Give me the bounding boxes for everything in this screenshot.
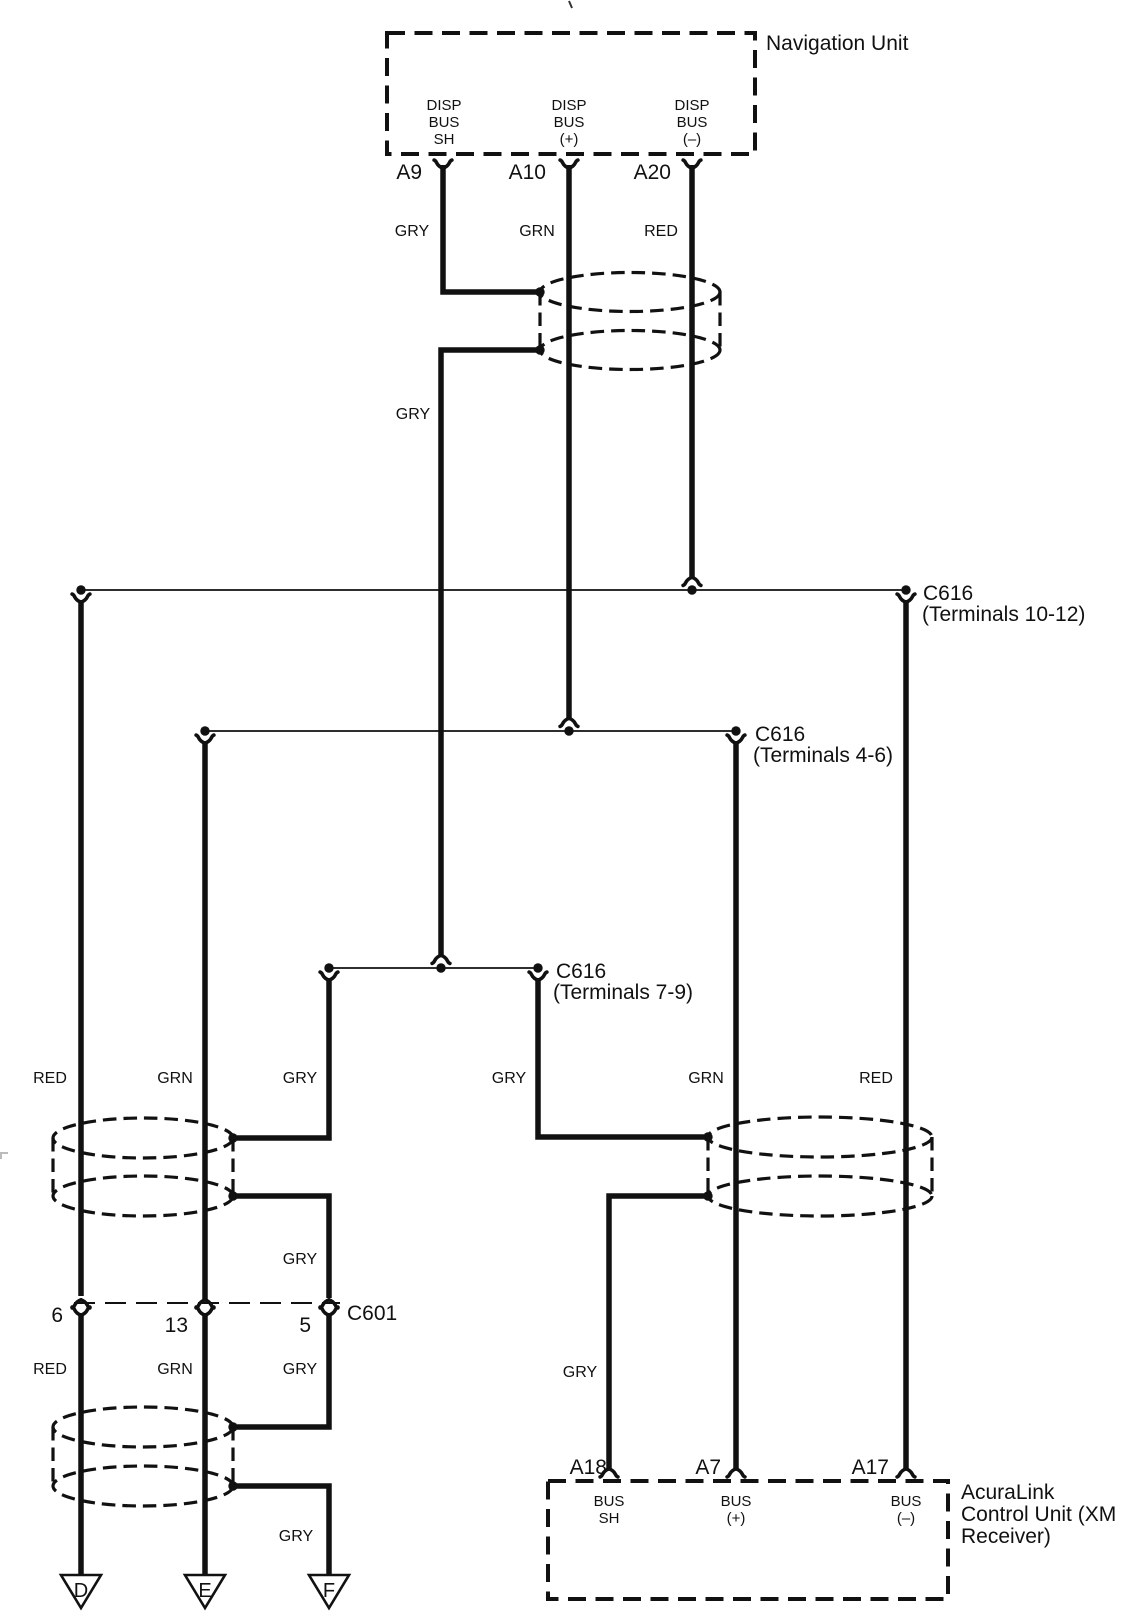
- C601 pin 5 female terminal: [320, 1307, 338, 1315]
- wire GRN right drop: [733, 741, 739, 1470]
- wire RED below C601: [78, 1313, 84, 1575]
- svg-text:Control Unit (XM: Control Unit (XM: [961, 1503, 1116, 1526]
- wire GRY below C601: [237, 1313, 329, 1427]
- C616 10-12 male terminal RED: [683, 577, 701, 585]
- wire GRN from A10: [566, 165, 572, 719]
- svg-text:RED: RED: [644, 223, 678, 240]
- shield S4 (left cable shield lower): [53, 1407, 233, 1506]
- wire RED from A20: [689, 165, 695, 579]
- C616 4-6 male terminal GRN: [560, 718, 578, 726]
- wire GRY long drop: [441, 350, 540, 957]
- svg-text:GRN: GRN: [157, 1361, 193, 1378]
- svg-text:C616: C616: [923, 582, 973, 605]
- svg-text:GRY: GRY: [492, 1070, 527, 1087]
- pin label BUS (-): [891, 1493, 922, 1527]
- svg-text:5: 5: [299, 1314, 311, 1337]
- connector C616 terminals 10-12 line: [81, 589, 906, 591]
- pin label DISP BUS (-): [674, 97, 709, 148]
- junction dot shield S2 bottom: [228, 1191, 237, 1200]
- svg-text:BUS: BUS: [677, 114, 708, 131]
- junction dot RED at C616 10-12: [687, 585, 696, 594]
- svg-text:F: F: [323, 1580, 335, 1602]
- connector C616 terminals 7-9 line: [329, 967, 538, 969]
- svg-text:RED: RED: [33, 1070, 67, 1087]
- pin label DISP BUS (+): [551, 97, 586, 148]
- shield S1 (top cable shield): [540, 273, 720, 370]
- svg-text:(Terminals 4-6): (Terminals 4-6): [753, 744, 893, 767]
- pin A20 terminal: [683, 160, 701, 168]
- scan artifact left edge: [0, 1153, 8, 1159]
- svg-text:E: E: [198, 1580, 211, 1602]
- svg-text:GRN: GRN: [157, 1070, 193, 1087]
- svg-text:GRY: GRY: [279, 1528, 314, 1545]
- female terminal left C616 7-9: [320, 972, 338, 980]
- svg-text:AcuraLink: AcuraLink: [961, 1481, 1055, 1504]
- female terminal right C616 10-12: [897, 594, 915, 602]
- Navigation Unit box: [387, 33, 755, 154]
- connector F: [309, 1575, 349, 1608]
- svg-text:A17: A17: [852, 1456, 889, 1479]
- svg-text:A9: A9: [396, 161, 422, 184]
- female terminal left C616 4-6: [196, 735, 214, 743]
- wire GRY right upper drop: [538, 978, 704, 1137]
- svg-text:(–): (–): [683, 131, 701, 148]
- C601 pin 6 female terminal: [72, 1307, 90, 1315]
- svg-text:A7: A7: [695, 1456, 721, 1479]
- junction dot shield S3 bottom: [703, 1191, 712, 1200]
- svg-text:A10: A10: [509, 161, 546, 184]
- node dot right C616 10-12: [901, 585, 910, 594]
- pin label BUS (+): [721, 1493, 752, 1527]
- svg-text:C616: C616: [556, 960, 606, 983]
- wire GRN below C601: [202, 1313, 208, 1575]
- svg-text:GRY: GRY: [283, 1251, 318, 1268]
- C601 pin 5 male terminal: [320, 1300, 338, 1308]
- svg-text:GRY: GRY: [563, 1364, 598, 1381]
- svg-text:(–): (–): [897, 1510, 915, 1527]
- female terminal left C616 10-12: [72, 594, 90, 602]
- junction dot GRN at C616 4-6: [564, 726, 573, 735]
- svg-text:A18: A18: [570, 1456, 607, 1479]
- pin A9 terminal: [434, 160, 452, 168]
- junction dot shield S4 top: [228, 1422, 237, 1431]
- svg-text:C601: C601: [347, 1302, 397, 1325]
- junction dot shield S4 bottom: [228, 1481, 237, 1490]
- node dot right C616 4-6: [731, 726, 740, 735]
- node dot right C616 7-9: [533, 963, 542, 972]
- pin label BUS SH: [594, 1493, 625, 1527]
- svg-text:DISP: DISP: [426, 97, 461, 114]
- svg-text:DISP: DISP: [674, 97, 709, 114]
- svg-text:GRN: GRN: [519, 223, 555, 240]
- AcuraLink Control Unit box: [548, 1481, 948, 1599]
- svg-text:13: 13: [165, 1314, 188, 1337]
- wire GRY right lower segment: [609, 1196, 708, 1469]
- svg-text:(+): (+): [560, 131, 579, 148]
- node dot left C616 7-9: [324, 963, 333, 972]
- svg-text:BUS: BUS: [594, 1493, 625, 1510]
- C601 pin 13 male terminal: [196, 1300, 214, 1308]
- svg-text:GRY: GRY: [395, 223, 430, 240]
- junction dot shield S3 top: [703, 1132, 712, 1141]
- svg-text:6: 6: [51, 1304, 63, 1327]
- wire RED right drop: [903, 600, 909, 1470]
- svg-text:SH: SH: [599, 1510, 620, 1527]
- pin A18 terminal: [600, 1469, 618, 1477]
- svg-text:A20: A20: [634, 161, 671, 184]
- scan artifact top: [569, 1, 572, 8]
- wire GRN left drop: [202, 741, 208, 1300]
- svg-text:Receiver): Receiver): [961, 1525, 1051, 1548]
- junction dot GRY at C616 7-9: [436, 963, 445, 972]
- svg-text:BUS: BUS: [721, 1493, 752, 1510]
- svg-text:BUS: BUS: [429, 114, 460, 131]
- node dot left C616 10-12: [76, 585, 85, 594]
- svg-text:(+): (+): [727, 1510, 746, 1527]
- svg-text:D: D: [74, 1580, 88, 1602]
- svg-text:Navigation Unit: Navigation Unit: [766, 32, 909, 55]
- connector C601 line: [74, 1302, 340, 1304]
- svg-text:(Terminals 10-12): (Terminals 10-12): [922, 603, 1085, 626]
- svg-text:BUS: BUS: [554, 114, 585, 131]
- svg-text:C616: C616: [755, 723, 805, 746]
- connector C616 terminals 4-6 line: [205, 730, 736, 732]
- wire GRY left lower segment: [233, 1196, 329, 1298]
- svg-text:GRY: GRY: [283, 1361, 318, 1378]
- pin A17 terminal: [897, 1469, 915, 1477]
- pin label DISP BUS SH: [426, 97, 461, 148]
- wire RED left drop: [78, 600, 84, 1296]
- svg-text:SH: SH: [434, 131, 455, 148]
- female terminal right C616 7-9: [529, 972, 547, 980]
- svg-text:GRY: GRY: [283, 1070, 318, 1087]
- pin A7 terminal: [727, 1469, 745, 1477]
- svg-text:(Terminals 7-9): (Terminals 7-9): [553, 981, 693, 1004]
- junction dot shield S1 bottom: [535, 345, 544, 354]
- wire GRY left upper drop: [237, 978, 329, 1138]
- svg-text:GRY: GRY: [396, 406, 431, 423]
- shield S3 (right cable shield): [708, 1117, 932, 1216]
- svg-text:RED: RED: [859, 1070, 893, 1087]
- connector E: [185, 1575, 225, 1608]
- svg-text:BUS: BUS: [891, 1493, 922, 1510]
- wire GRY from A9: [443, 165, 540, 292]
- C616 7-9 male terminal GRY: [432, 955, 450, 963]
- svg-text:DISP: DISP: [551, 97, 586, 114]
- svg-text:GRN: GRN: [688, 1070, 724, 1087]
- svg-text:RED: RED: [33, 1361, 67, 1378]
- C601 pin 6 male terminal: [72, 1300, 90, 1308]
- C601 pin 13 female terminal: [196, 1307, 214, 1315]
- connector D: [61, 1575, 101, 1608]
- pin A10 terminal: [560, 160, 578, 168]
- wire GRY to connector F: [233, 1486, 329, 1575]
- shield S2 (left cable shield upper): [53, 1118, 233, 1216]
- female terminal right C616 4-6: [727, 735, 745, 743]
- junction dot shield S1 top: [535, 287, 544, 296]
- node dot left C616 4-6: [200, 726, 209, 735]
- junction dot shield S2 top: [228, 1133, 237, 1142]
